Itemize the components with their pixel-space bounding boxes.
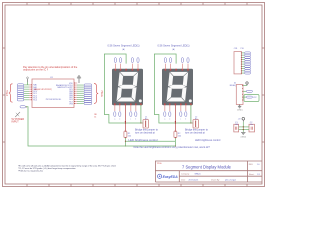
svg-text:turn on decimal pt: turn on decimal pt [135, 132, 155, 135]
svg-text:P10: P10 [241, 48, 244, 50]
ground flag U2 [237, 105, 243, 112]
svg-text:output pins on the IC !!: output pins on the IC !! [23, 68, 48, 71]
wire DS2 common anode [154, 54, 193, 123]
svg-text:john_morgan: john_morgan [224, 179, 236, 182]
svg-text:a: a [114, 119, 115, 121]
power flag VCC caps [238, 117, 245, 121]
svg-text:Note the LED brightness contro: Note the LED brightness control is very … [134, 146, 211, 149]
svg-text:1.0: 1.0 [257, 164, 260, 166]
net labels input group [17, 84, 24, 101]
7-segment display DS1 [112, 69, 143, 105]
IC U1 PIC16F1829 [32, 77, 74, 107]
label DS2 part name [158, 44, 190, 51]
svg-text:CN1: CN1 [234, 48, 238, 50]
power flag VCC U2 [243, 82, 248, 86]
svg-text:+5V: +5V [238, 119, 241, 121]
title block [155, 161, 262, 182]
wires caps to rails [239, 122, 249, 132]
wire DS1 common anode [104, 54, 143, 123]
capacitor C1 [234, 122, 239, 132]
svg-text:PIC16F1829-I/SL: PIC16F1829-I/SL [46, 99, 62, 101]
svg-text:EasyEDA: EasyEDA [163, 175, 179, 179]
wire R1 to R2 [125, 138, 176, 147]
svg-text:a: a [164, 119, 165, 121]
annotation 5V input [12, 118, 25, 124]
wire U2 out1 [243, 90, 252, 92]
annotation J2 decimal point [185, 129, 209, 135]
ground flag above IC [77, 76, 81, 83]
ground flag caps [241, 133, 247, 139]
no-connect flag [15, 112, 20, 117]
wires IC right segment nets [77, 85, 84, 103]
svg-text:Date:: Date: [181, 179, 186, 182]
svg-text:e: e [119, 119, 120, 121]
svg-text:RA5(MCLR/VPP/RST): RA5(MCLR/VPP/RST) [34, 88, 52, 91]
wire DS1 decimal point [125, 105, 126, 131]
svg-text:1k: 1k [94, 116, 96, 118]
svg-text:0.56 Seven Segment LED(1): 0.56 Seven Segment LED(1) [108, 44, 140, 47]
jumper J2 [193, 116, 199, 128]
svg-text:RC4: RC4 [33, 100, 37, 102]
annotation J1 decimal point [135, 129, 159, 135]
wires IC left input nets [24, 85, 29, 100]
svg-text:e: e [169, 119, 170, 121]
net highlight box [244, 95, 259, 102]
connector CN1 [234, 48, 244, 74]
IC U2 [230, 82, 243, 104]
svg-text:Drawn By:: Drawn By: [211, 179, 220, 182]
svg-text:7 Segment Display Module: 7 Segment Display Module [182, 164, 232, 169]
svg-text:7SEG: 7SEG [100, 90, 103, 97]
DS1 top pins [114, 58, 139, 70]
svg-text:LED brightness control: LED brightness control [195, 139, 221, 142]
label DS1 part name [108, 44, 140, 51]
svg-text:0.56 Seven Segment LED(1): 0.56 Seven Segment LED(1) [158, 44, 190, 47]
svg-text:10u: 10u [250, 124, 253, 126]
power flag VDD top-left [27, 77, 29, 85]
annotation design notes [18, 165, 116, 173]
svg-text:1/1: 1/1 [257, 174, 260, 176]
capacitor C2 [249, 122, 255, 132]
wire ground bus [26, 107, 176, 146]
svg-text:2017-04-15: 2017-04-15 [189, 180, 199, 182]
svg-text:SHA41: SHA41 [195, 173, 201, 176]
svg-text:(GND): (GND) [241, 136, 247, 138]
net label 5V input [20, 106, 27, 108]
svg-text:10k: 10k [178, 136, 181, 138]
wire DS1 pin10 [140, 105, 141, 124]
net labels CN1 [245, 52, 251, 74]
resistor R2 10k [174, 131, 181, 138]
svg-text:TITLE:: TITLE: [157, 163, 163, 165]
svg-text:CTRL: CTRL [6, 89, 9, 96]
svg-text:INPUT: INPUT [12, 121, 20, 124]
wire U2 out2 [243, 96, 252, 98]
U2 pin dots [241, 85, 244, 100]
DS2 top pins [164, 58, 189, 70]
IC U1 left pin stubs [29, 84, 32, 100]
DS1 bottom pins [114, 105, 137, 121]
annotation warning note [23, 66, 78, 72]
svg-text:104: 104 [235, 124, 238, 126]
svg-text:Sheet:: Sheet: [249, 173, 255, 176]
jumper J1 [143, 116, 149, 128]
annotation brightness right [195, 139, 221, 142]
svg-text:*PCB 2oz Cu required (+3c): *PCB 2oz Cu required (+3c) [18, 170, 43, 172]
brace segment outputs [94, 84, 103, 104]
svg-text:Company:: Company: [181, 174, 190, 176]
brace input group [6, 84, 12, 102]
IC U1 right pin stubs [74, 83, 77, 105]
svg-text:(A): (A) [122, 48, 125, 51]
annotation R8 [94, 114, 96, 119]
wires CN1 pins [241, 52, 245, 73]
svg-text:(GND): (GND) [237, 110, 243, 112]
DS2 bottom pins [164, 105, 187, 121]
svg-text:turn on decimal pt: turn on decimal pt [185, 132, 205, 135]
resistor R1 10k [124, 131, 131, 138]
svg-text:MSGEQ: MSGEQ [230, 85, 237, 87]
annotation brightness left [128, 138, 158, 142]
wire DS2 decimal point [175, 105, 176, 131]
7-segment display DS2 [162, 69, 193, 105]
svg-text:(A): (A) [172, 48, 175, 51]
net labels segment nets [84, 84, 92, 105]
annotation brightness note [134, 146, 211, 149]
logo EasyEDA [158, 174, 179, 179]
svg-text:LED brightness control: LED brightness control [128, 138, 158, 142]
wire DS2 pin10 [190, 105, 191, 124]
svg-text:REV:: REV: [249, 164, 254, 166]
